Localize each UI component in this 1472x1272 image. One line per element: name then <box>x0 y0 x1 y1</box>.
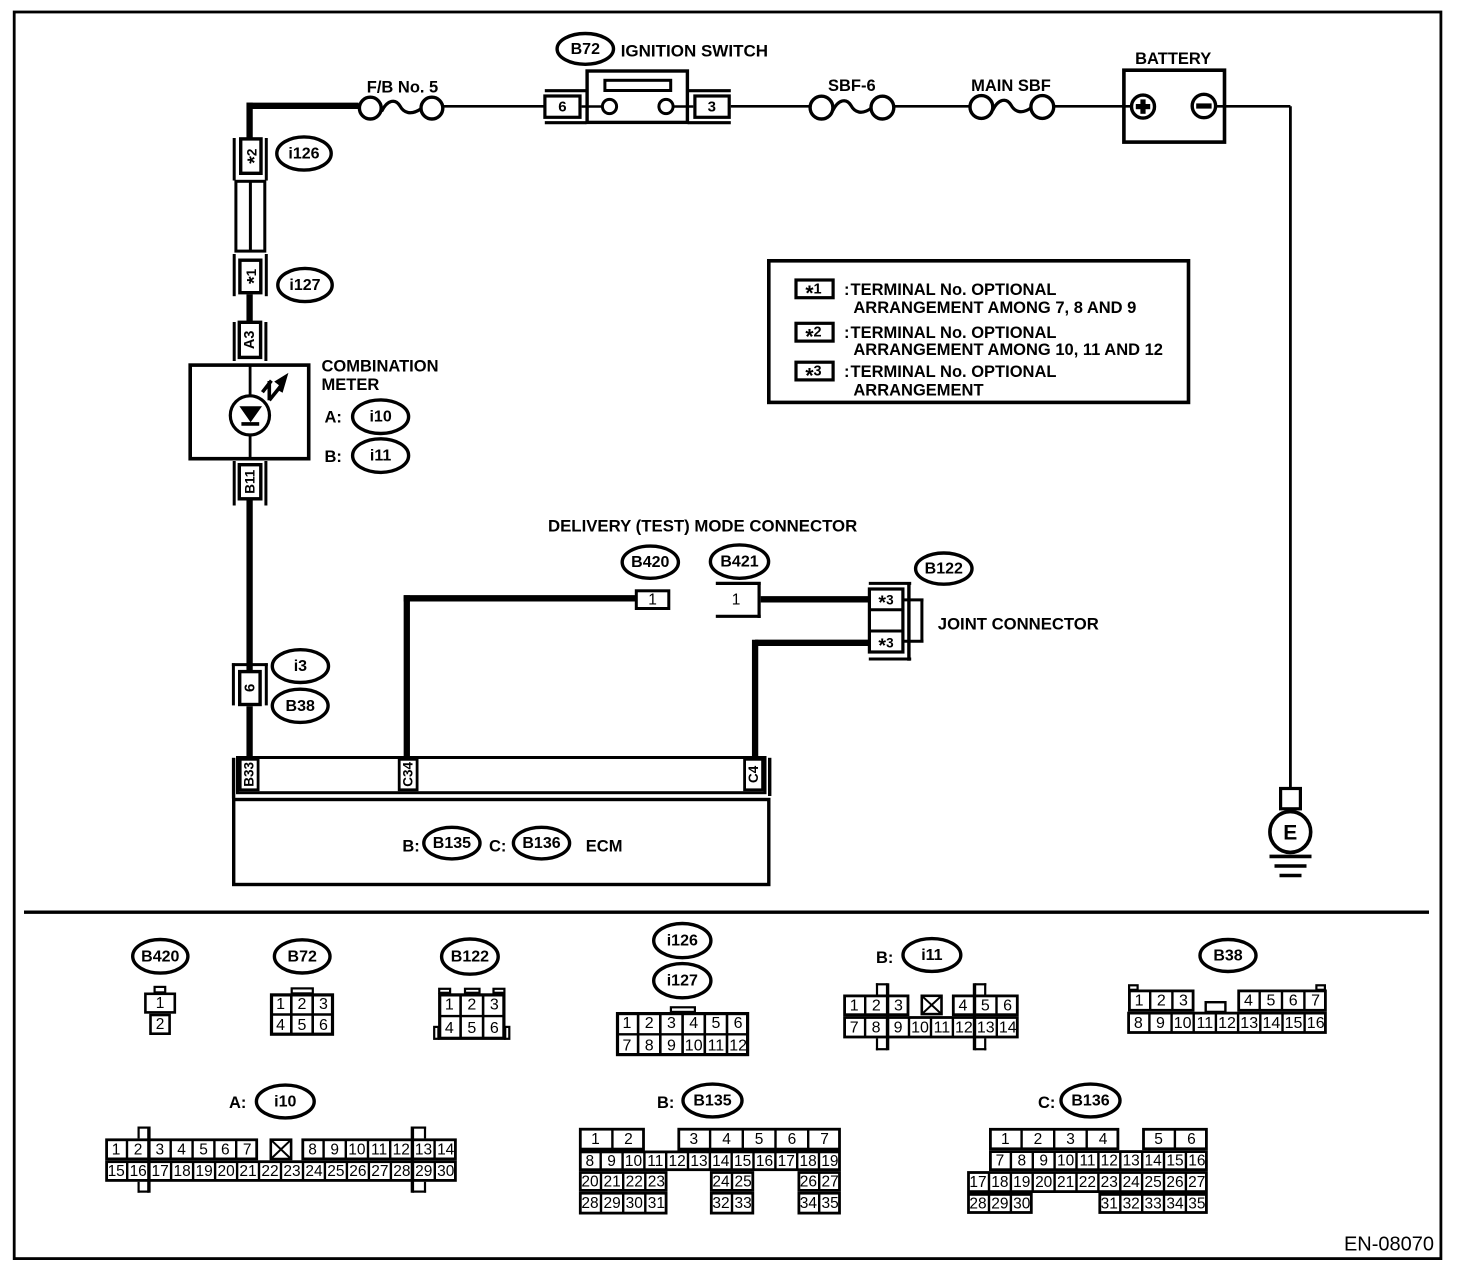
svg-text:2: 2 <box>134 1141 143 1158</box>
svg-text:6: 6 <box>788 1131 797 1148</box>
svg-text:23: 23 <box>648 1173 665 1190</box>
svg-text:1: 1 <box>1001 1131 1010 1148</box>
svg-text:5: 5 <box>711 1015 720 1032</box>
svg-text:4: 4 <box>445 1020 454 1037</box>
svg-text:2: 2 <box>872 997 881 1014</box>
svg-text:ARRANGEMENT AMONG 7, 8 AND 9: ARRANGEMENT AMONG 7, 8 AND 9 <box>853 299 1136 317</box>
svg-text:11: 11 <box>708 1037 725 1054</box>
svg-text:A:: A: <box>325 408 342 426</box>
svg-text:3: 3 <box>319 996 328 1013</box>
svg-text:1: 1 <box>623 1015 632 1032</box>
ignition switch contact circle left <box>602 99 616 113</box>
svg-text:6: 6 <box>734 1015 743 1032</box>
pinout i10 connector <box>107 1140 257 1159</box>
svg-text:TERMINAL No. OPTIONAL: TERMINAL No. OPTIONAL <box>851 281 1057 299</box>
pinout i126/i127 connector <box>671 1007 695 1012</box>
svg-text:A:: A: <box>229 1094 246 1112</box>
svg-text:B72: B72 <box>288 948 317 965</box>
svg-text:24: 24 <box>712 1173 730 1190</box>
svg-text:10: 10 <box>1057 1153 1075 1170</box>
svg-text:7: 7 <box>996 1153 1005 1170</box>
wire SBF-6 to MAIN SBF <box>894 105 970 108</box>
ignition switch key slot <box>605 80 671 90</box>
svg-text:i3: i3 <box>294 658 307 675</box>
svg-text:6: 6 <box>221 1141 230 1158</box>
ignition switch connector shell lines left <box>545 89 587 92</box>
svg-text:COMBINATION: COMBINATION <box>322 357 439 375</box>
svg-text::: : <box>844 324 850 342</box>
connector ref B420 bubble <box>622 546 678 578</box>
ignition switch connector shell lines right <box>688 89 731 92</box>
ignition switch contact stub right <box>673 105 693 108</box>
svg-text:5: 5 <box>199 1141 208 1158</box>
legend *2 box <box>796 323 833 341</box>
svg-text:26: 26 <box>349 1163 366 1180</box>
wire B421 to joint connector <box>761 596 869 602</box>
connector i127 side rails <box>233 254 236 296</box>
svg-text:1: 1 <box>850 997 859 1014</box>
svg-text:1: 1 <box>648 592 657 609</box>
ECM terminal C34 <box>399 759 417 790</box>
wire battery to ground drop <box>1216 105 1291 108</box>
svg-text:19: 19 <box>1013 1174 1030 1191</box>
svg-text:23: 23 <box>1101 1174 1118 1191</box>
svg-text:10: 10 <box>625 1153 643 1170</box>
svg-text:30: 30 <box>437 1163 455 1180</box>
svg-text:31: 31 <box>1101 1196 1118 1213</box>
pinout B122 connector <box>439 989 450 993</box>
wire inside meter <box>249 365 252 459</box>
svg-text:1: 1 <box>112 1141 121 1158</box>
ECM strip right cap <box>768 758 771 796</box>
svg-text:B38: B38 <box>1213 948 1242 965</box>
svg-text:B122: B122 <box>451 949 489 966</box>
wire thick vertical to connector i126 <box>246 103 252 139</box>
svg-text:6: 6 <box>241 684 258 692</box>
svg-text:15: 15 <box>108 1163 125 1180</box>
svg-text:9: 9 <box>894 1019 903 1036</box>
svg-text:4: 4 <box>1244 993 1253 1010</box>
legend *3 box <box>796 362 833 380</box>
connector ref B421 bubble <box>710 545 768 578</box>
wire B11 down to connector 6 <box>246 501 252 671</box>
ECM terminal C4 <box>745 759 763 790</box>
svg-text:35: 35 <box>1188 1196 1205 1213</box>
pinout B72 bubble <box>274 940 330 973</box>
terminal 3 of ignition switch <box>695 96 729 117</box>
svg-text:5: 5 <box>467 1020 476 1037</box>
combination meter terminal B11 <box>239 465 260 499</box>
svg-text:11: 11 <box>1079 1153 1095 1170</box>
svg-text:BATTERY: BATTERY <box>1135 50 1211 68</box>
svg-text:TERMINAL No. OPTIONAL: TERMINAL No. OPTIONAL <box>851 363 1057 381</box>
svg-text:C:: C: <box>489 838 506 856</box>
svg-text:16: 16 <box>756 1153 773 1170</box>
svg-text:B135: B135 <box>693 1093 731 1110</box>
svg-text:12: 12 <box>668 1153 685 1170</box>
ECM body box <box>234 800 769 885</box>
svg-text:1: 1 <box>1135 993 1144 1010</box>
battery negative terminal <box>1192 94 1215 117</box>
svg-text:B421: B421 <box>720 554 758 571</box>
pinout B420 connector <box>155 987 166 993</box>
svg-text:C34: C34 <box>401 762 416 787</box>
svg-text:29: 29 <box>991 1196 1008 1213</box>
svg-text:21: 21 <box>1057 1174 1074 1191</box>
svg-text:8: 8 <box>1134 1015 1143 1032</box>
svg-text:27: 27 <box>371 1163 388 1180</box>
joint connector internal link bracket <box>905 598 924 601</box>
svg-text:16: 16 <box>1188 1153 1205 1170</box>
connector i126 side rails <box>233 138 236 181</box>
svg-text:3: 3 <box>894 997 903 1014</box>
svg-text:4: 4 <box>177 1141 186 1158</box>
terminal 6 of ignition switch <box>545 96 580 117</box>
svg-text:14: 14 <box>999 1019 1017 1036</box>
svg-text:3: 3 <box>689 1131 698 1148</box>
svg-text:11: 11 <box>1196 1015 1213 1032</box>
LED light arrow <box>262 381 271 393</box>
svg-text:13: 13 <box>690 1153 707 1170</box>
svg-text:F/B No. 5: F/B No. 5 <box>367 79 439 97</box>
svg-text:27: 27 <box>1188 1174 1205 1191</box>
ground symbol bars <box>1270 855 1312 859</box>
svg-text:B135: B135 <box>433 835 471 852</box>
svg-text:2: 2 <box>156 1016 165 1033</box>
svg-text:MAIN SBF: MAIN SBF <box>971 77 1051 95</box>
svg-text:B122: B122 <box>925 561 963 578</box>
svg-text:21: 21 <box>603 1173 620 1190</box>
svg-text:30: 30 <box>1013 1196 1031 1213</box>
svg-text:B:: B: <box>402 838 419 856</box>
svg-text:i10: i10 <box>274 1094 296 1111</box>
svg-text:32: 32 <box>712 1195 729 1212</box>
svg-text:9: 9 <box>607 1153 616 1170</box>
svg-text:i127: i127 <box>289 277 320 294</box>
svg-text:22: 22 <box>261 1163 278 1180</box>
wire thick from corner to F/B No.5 fuse <box>247 103 359 109</box>
svg-text:14: 14 <box>437 1141 455 1158</box>
svg-text:3: 3 <box>155 1141 164 1158</box>
wire B420 to ECM C34 <box>404 595 637 601</box>
fuse SBF-6 <box>833 101 872 112</box>
svg-text:C4: C4 <box>746 765 761 783</box>
fusible link body <box>236 181 265 251</box>
svg-text:27: 27 <box>821 1173 838 1190</box>
pinout i126 bubble <box>654 924 711 958</box>
pinout B38 connector <box>1129 985 1138 990</box>
svg-text:2: 2 <box>1157 993 1166 1010</box>
svg-text:29: 29 <box>603 1195 620 1212</box>
svg-text:26: 26 <box>1166 1174 1183 1191</box>
battery <box>1124 70 1225 142</box>
combination meter box <box>190 365 309 459</box>
svg-text:31: 31 <box>648 1195 665 1212</box>
svg-text:5: 5 <box>981 997 990 1014</box>
svg-text:SBF-6: SBF-6 <box>828 77 876 95</box>
ECM terminal B33 <box>240 759 258 790</box>
svg-text:6: 6 <box>1003 997 1012 1014</box>
svg-text:TERMINAL No. OPTIONAL: TERMINAL No. OPTIONAL <box>851 324 1057 342</box>
svg-text:12: 12 <box>393 1141 410 1158</box>
svg-text:6: 6 <box>1289 993 1298 1010</box>
svg-text:33: 33 <box>734 1195 751 1212</box>
svg-text:ARRANGEMENT: ARRANGEMENT <box>853 382 983 400</box>
svg-text:B11: B11 <box>243 469 258 494</box>
svg-text:4: 4 <box>276 1017 285 1034</box>
svg-text:i11: i11 <box>370 448 391 465</box>
svg-text:5: 5 <box>1154 1131 1163 1148</box>
connector terminal 6 <box>240 672 260 705</box>
svg-text:7: 7 <box>1311 993 1320 1010</box>
svg-text:34: 34 <box>1166 1196 1184 1213</box>
wire connector 6 to ECM B33 <box>246 706 252 758</box>
svg-text:16: 16 <box>130 1163 147 1180</box>
svg-text:ECM: ECM <box>586 838 623 856</box>
svg-text:JOINT CONNECTOR: JOINT CONNECTOR <box>938 614 1099 633</box>
battery positive terminal <box>1132 95 1155 118</box>
svg-text:i11: i11 <box>921 947 942 964</box>
svg-text:6: 6 <box>490 1020 499 1037</box>
svg-text:8: 8 <box>1017 1153 1026 1170</box>
svg-text:12: 12 <box>1218 1015 1236 1032</box>
svg-text:12: 12 <box>955 1019 973 1036</box>
svg-text:B:: B: <box>325 448 342 466</box>
svg-text:10: 10 <box>348 1141 366 1158</box>
separator line between schematic and pinout section <box>24 911 1429 914</box>
svg-text:EN-08070: EN-08070 <box>1344 1234 1434 1256</box>
svg-text:34: 34 <box>800 1195 818 1212</box>
svg-text:12: 12 <box>1101 1153 1118 1170</box>
svg-text::: : <box>844 363 850 381</box>
svg-text:28: 28 <box>969 1196 986 1213</box>
svg-text:25: 25 <box>1144 1174 1161 1191</box>
svg-text:10: 10 <box>1174 1015 1192 1032</box>
svg-text:B136: B136 <box>522 835 560 852</box>
svg-text:17: 17 <box>778 1153 795 1170</box>
combination meter terminal A3 <box>239 322 260 357</box>
svg-text:B:: B: <box>657 1094 674 1112</box>
LED cathode bar <box>241 422 259 426</box>
svg-text:6: 6 <box>558 99 566 116</box>
svg-text:33: 33 <box>1144 1196 1161 1213</box>
svg-text:25: 25 <box>734 1173 751 1190</box>
svg-text:B:: B: <box>876 949 893 967</box>
svg-text:26: 26 <box>800 1173 817 1190</box>
indicator LED circle <box>230 396 269 435</box>
legend note box <box>769 261 1189 403</box>
svg-text:25: 25 <box>327 1163 344 1180</box>
svg-text:17: 17 <box>151 1163 168 1180</box>
ECM strip left cap <box>232 758 235 799</box>
svg-text:6: 6 <box>1187 1131 1196 1148</box>
ground connector square <box>1281 789 1301 809</box>
svg-text:21: 21 <box>239 1163 256 1180</box>
svg-text:20: 20 <box>1035 1174 1053 1191</box>
svg-text:5: 5 <box>1266 993 1275 1010</box>
svg-text:13: 13 <box>977 1019 995 1036</box>
svg-text:30: 30 <box>626 1195 644 1212</box>
delivery mode connector B421 terminal 1 (open left) <box>716 582 761 585</box>
svg-text:METER: METER <box>322 376 380 394</box>
svg-text:9: 9 <box>1156 1015 1165 1032</box>
svg-text:1: 1 <box>156 995 165 1012</box>
svg-text:6: 6 <box>319 1017 328 1034</box>
svg-text:B38: B38 <box>286 698 315 715</box>
wire MAIN SBF to battery <box>1054 105 1131 108</box>
svg-text:22: 22 <box>626 1173 643 1190</box>
ECM terminal strip <box>238 758 766 793</box>
svg-text:8: 8 <box>308 1141 317 1158</box>
svg-text:9: 9 <box>1039 1153 1048 1170</box>
svg-text:i126: i126 <box>667 933 698 950</box>
connector ref i127 bubble <box>278 268 332 301</box>
svg-text:5: 5 <box>755 1131 764 1148</box>
svg-text:1: 1 <box>276 996 285 1013</box>
fuse F/B No. 5 <box>382 101 422 112</box>
svg-text:8: 8 <box>645 1037 654 1054</box>
svg-text:B72: B72 <box>571 41 600 58</box>
svg-text:8: 8 <box>872 1019 881 1036</box>
svg-text:C:: C: <box>1038 1094 1055 1112</box>
connector ref i3 bubble <box>272 650 328 683</box>
connector A3 side rails <box>233 322 236 361</box>
svg-text:A3: A3 <box>242 331 258 350</box>
svg-text:18: 18 <box>173 1163 190 1180</box>
svg-text:2: 2 <box>467 997 476 1014</box>
svg-text:32: 32 <box>1123 1196 1140 1213</box>
svg-text:20: 20 <box>217 1163 235 1180</box>
svg-text:15: 15 <box>734 1153 751 1170</box>
svg-text:7: 7 <box>850 1019 859 1036</box>
svg-text:23: 23 <box>283 1163 300 1180</box>
svg-text:12: 12 <box>729 1037 747 1054</box>
svg-text:9: 9 <box>330 1141 339 1158</box>
pinout B122 bubble <box>442 939 499 974</box>
legend *1 box <box>796 280 833 298</box>
svg-text:3: 3 <box>1066 1131 1075 1148</box>
connector i127 terminal *1 <box>240 260 261 293</box>
svg-text:4: 4 <box>722 1131 731 1148</box>
svg-text:1: 1 <box>591 1131 600 1148</box>
pinout B72 connector <box>292 988 313 993</box>
svg-text:19: 19 <box>821 1153 838 1170</box>
svg-text:2: 2 <box>624 1131 633 1148</box>
pinout i11 connector <box>845 996 908 1015</box>
svg-text:i126: i126 <box>288 146 319 163</box>
svg-text:E: E <box>1283 821 1297 844</box>
svg-text:IGNITION SWITCH: IGNITION SWITCH <box>621 42 768 61</box>
svg-text:3: 3 <box>667 1015 676 1032</box>
svg-text:2: 2 <box>298 996 307 1013</box>
svg-text:29: 29 <box>415 1163 432 1180</box>
svg-text:4: 4 <box>1099 1131 1108 1148</box>
svg-text:19: 19 <box>195 1163 212 1180</box>
svg-text:4: 4 <box>689 1015 698 1032</box>
svg-text:11: 11 <box>934 1019 951 1036</box>
connector ref B72 bubble <box>557 34 613 65</box>
svg-text:35: 35 <box>821 1195 838 1212</box>
joint connector B122 shell <box>869 582 911 585</box>
svg-text:28: 28 <box>581 1195 598 1212</box>
svg-text:i127: i127 <box>667 973 698 990</box>
connector ref B122 bubble <box>916 553 972 584</box>
svg-text:13: 13 <box>415 1141 432 1158</box>
pinout B136 connector <box>990 1129 1118 1149</box>
svg-text:14: 14 <box>1144 1153 1162 1170</box>
svg-text:2: 2 <box>1034 1131 1043 1148</box>
svg-text:4: 4 <box>959 997 968 1014</box>
connector ref B38 bubble <box>272 689 328 722</box>
connector ref i126 bubble <box>277 137 331 170</box>
svg-text:ARRANGEMENT AMONG 10, 11 AND 1: ARRANGEMENT AMONG 10, 11 AND 12 <box>853 341 1163 359</box>
ignition switch B72 body <box>587 71 687 122</box>
svg-text:22: 22 <box>1079 1174 1096 1191</box>
svg-text:14: 14 <box>1263 1015 1281 1032</box>
delivery mode connector B420 terminal 1 <box>636 591 669 609</box>
joint connector terminal box <box>869 589 903 652</box>
connector i3/B38 shell bracket <box>232 663 268 666</box>
svg-text:14: 14 <box>712 1153 730 1170</box>
wire i127 to A3 <box>246 294 252 322</box>
svg-text:7: 7 <box>820 1131 829 1148</box>
wire joint connector to ECM C4 <box>755 640 869 646</box>
svg-text:17: 17 <box>969 1174 986 1191</box>
pinout i127 bubble <box>654 964 711 998</box>
svg-text:20: 20 <box>581 1173 599 1190</box>
fuse MAIN SBF <box>993 100 1032 111</box>
svg-text:9: 9 <box>667 1037 676 1054</box>
svg-text:24: 24 <box>305 1163 323 1180</box>
svg-text:B33: B33 <box>242 762 257 787</box>
svg-text:B420: B420 <box>141 948 179 965</box>
svg-text:3: 3 <box>1179 993 1188 1010</box>
svg-text:11: 11 <box>371 1141 387 1158</box>
svg-text:11: 11 <box>647 1153 663 1170</box>
ground E circle <box>1270 812 1311 853</box>
svg-text:18: 18 <box>799 1153 816 1170</box>
svg-text:13: 13 <box>1240 1015 1258 1032</box>
svg-text:3: 3 <box>708 99 716 116</box>
svg-text:DELIVERY (TEST) MODE CONNECTOR: DELIVERY (TEST) MODE CONNECTOR <box>548 516 857 535</box>
svg-text:18: 18 <box>991 1174 1008 1191</box>
svg-text:7: 7 <box>623 1037 632 1054</box>
pinout B420 bubble <box>133 940 188 974</box>
svg-text:1: 1 <box>732 592 741 609</box>
svg-text:2: 2 <box>645 1015 654 1032</box>
svg-text:8: 8 <box>585 1153 594 1170</box>
svg-text:7: 7 <box>243 1141 252 1158</box>
ignition switch contact circle right <box>659 99 673 113</box>
svg-text:B136: B136 <box>1071 1093 1109 1110</box>
wire F/B No.5 to ignition switch terminal 6 <box>443 105 545 108</box>
svg-text:10: 10 <box>911 1019 929 1036</box>
pinout B38 bubble <box>1200 940 1256 972</box>
connector B11 side rails <box>233 461 236 506</box>
svg-text:15: 15 <box>1285 1015 1303 1032</box>
svg-text:16: 16 <box>1307 1015 1325 1032</box>
svg-text:1: 1 <box>445 997 454 1014</box>
ignition switch contact stub left <box>582 105 603 108</box>
svg-text:i10: i10 <box>369 409 391 426</box>
pinout B135 connector <box>580 1129 643 1149</box>
wire ignition switch to SBF-6 <box>731 105 811 108</box>
svg-text:10: 10 <box>685 1037 703 1054</box>
wire vertical down right side <box>1289 106 1292 788</box>
connector i126 terminal *2 <box>241 139 261 173</box>
svg-text:28: 28 <box>393 1163 410 1180</box>
svg-text:13: 13 <box>1123 1153 1140 1170</box>
